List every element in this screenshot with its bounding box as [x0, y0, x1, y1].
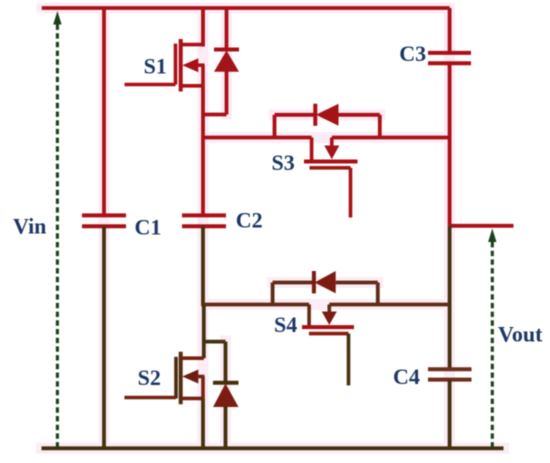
wire left vertical (top rail to C1): [102, 8, 106, 215]
svg-text:C2: C2: [236, 208, 263, 233]
wire top rail to C3: [448, 8, 452, 53]
Vin arrow: [53, 11, 61, 448]
svg-text:Vout: Vout: [498, 322, 543, 347]
S2 gate lead: [124, 396, 176, 400]
svg-text:C3: C3: [399, 41, 426, 66]
svg-text:S4: S4: [274, 312, 297, 337]
diode D3 (S3 body diode): [275, 104, 380, 126]
wire right vertical Vout node down to C4: [448, 226, 452, 369]
wire S3 loop left vertical: [273, 115, 277, 138]
wire S4 loop right vertical: [376, 283, 380, 305]
svg-text:C4: C4: [393, 364, 420, 389]
diode D2 (S2 body diode): [213, 342, 239, 448]
transistor S2: [176, 352, 205, 404]
wire C4 bottom to bottom rail: [448, 380, 452, 448]
transistor S1: [176, 39, 205, 92]
wire bottom rail: [42, 446, 504, 450]
wire C1 bottom to bottom rail: [102, 226, 106, 448]
wire C2 bottom to lower node: [201, 226, 205, 306]
diode D4 (S4 body diode): [273, 271, 378, 293]
wire S2 drain from lower node: [202, 305, 206, 359]
svg-text:S3: S3: [272, 150, 295, 175]
transistor S4: [302, 305, 354, 386]
wire S2 source to bottom rail: [201, 398, 205, 448]
wire S1 drain from top rail: [201, 8, 205, 47]
wire lower node right segment: [329, 303, 449, 307]
capacitor C1: [82, 215, 126, 226]
svg-text:S2: S2: [138, 365, 161, 390]
capacitor C4: [428, 369, 472, 379]
pink halo underlay: [42, 8, 504, 448]
svg-text:Vin: Vin: [13, 214, 46, 239]
wire upper node left segment: [203, 136, 312, 140]
transistor S3: [304, 138, 358, 218]
S1 gate lead: [125, 83, 176, 87]
wire upper node right segment: [332, 136, 450, 140]
wire S3 loop right vertical: [378, 115, 382, 138]
diode D1 (S1 body diode): [214, 8, 239, 115]
Vout arrow: [488, 229, 496, 449]
capacitor C3: [428, 53, 471, 63]
wire Vout stub: [450, 224, 514, 228]
wire top rail: [42, 6, 450, 10]
wire C3 bottom to Vout node: [448, 63, 452, 226]
wire S2 drain-diode link: [204, 340, 226, 344]
wire S1 source-diode link: [203, 113, 227, 117]
wire S4 loop left vertical: [271, 283, 275, 305]
svg-text:C1: C1: [135, 215, 162, 240]
capacitor C2: [182, 215, 226, 226]
wire lower node left segment: [203, 303, 309, 307]
svg-text:S1: S1: [144, 54, 167, 79]
wire S1 source down to C2: [201, 86, 205, 216]
